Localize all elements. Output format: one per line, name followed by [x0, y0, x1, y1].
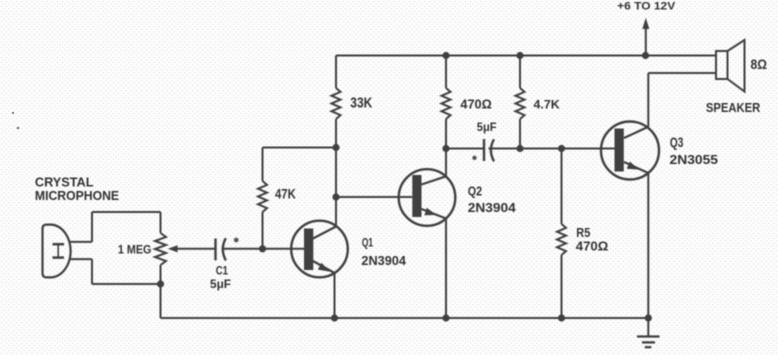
svg-text:1 MEG: 1 MEG [118, 243, 151, 257]
svg-text:8Ω: 8Ω [751, 56, 768, 72]
svg-text:5μF: 5μF [477, 120, 497, 134]
svg-text:Q3: Q3 [670, 135, 684, 150]
svg-text:Q1: Q1 [362, 236, 373, 250]
svg-text:470Ω: 470Ω [576, 240, 609, 254]
svg-text:Q2: Q2 [468, 184, 482, 198]
svg-text:SPEAKER: SPEAKER [706, 100, 761, 115]
svg-text:+6 TO 12V: +6 TO 12V [617, 1, 676, 13]
svg-text:5μF: 5μF [210, 277, 231, 291]
svg-text:2N3904: 2N3904 [361, 253, 406, 268]
svg-text:47K: 47K [275, 187, 296, 202]
svg-text:470Ω: 470Ω [460, 98, 491, 112]
svg-text:MICROPHONE: MICROPHONE [35, 188, 119, 203]
svg-text:2N3904: 2N3904 [468, 200, 517, 215]
svg-text:4.7K: 4.7K [534, 98, 561, 112]
svg-text:C1: C1 [216, 264, 228, 278]
svg-text:33K: 33K [350, 95, 373, 111]
svg-text:2N3055: 2N3055 [670, 152, 719, 167]
svg-text:R5: R5 [576, 226, 590, 240]
